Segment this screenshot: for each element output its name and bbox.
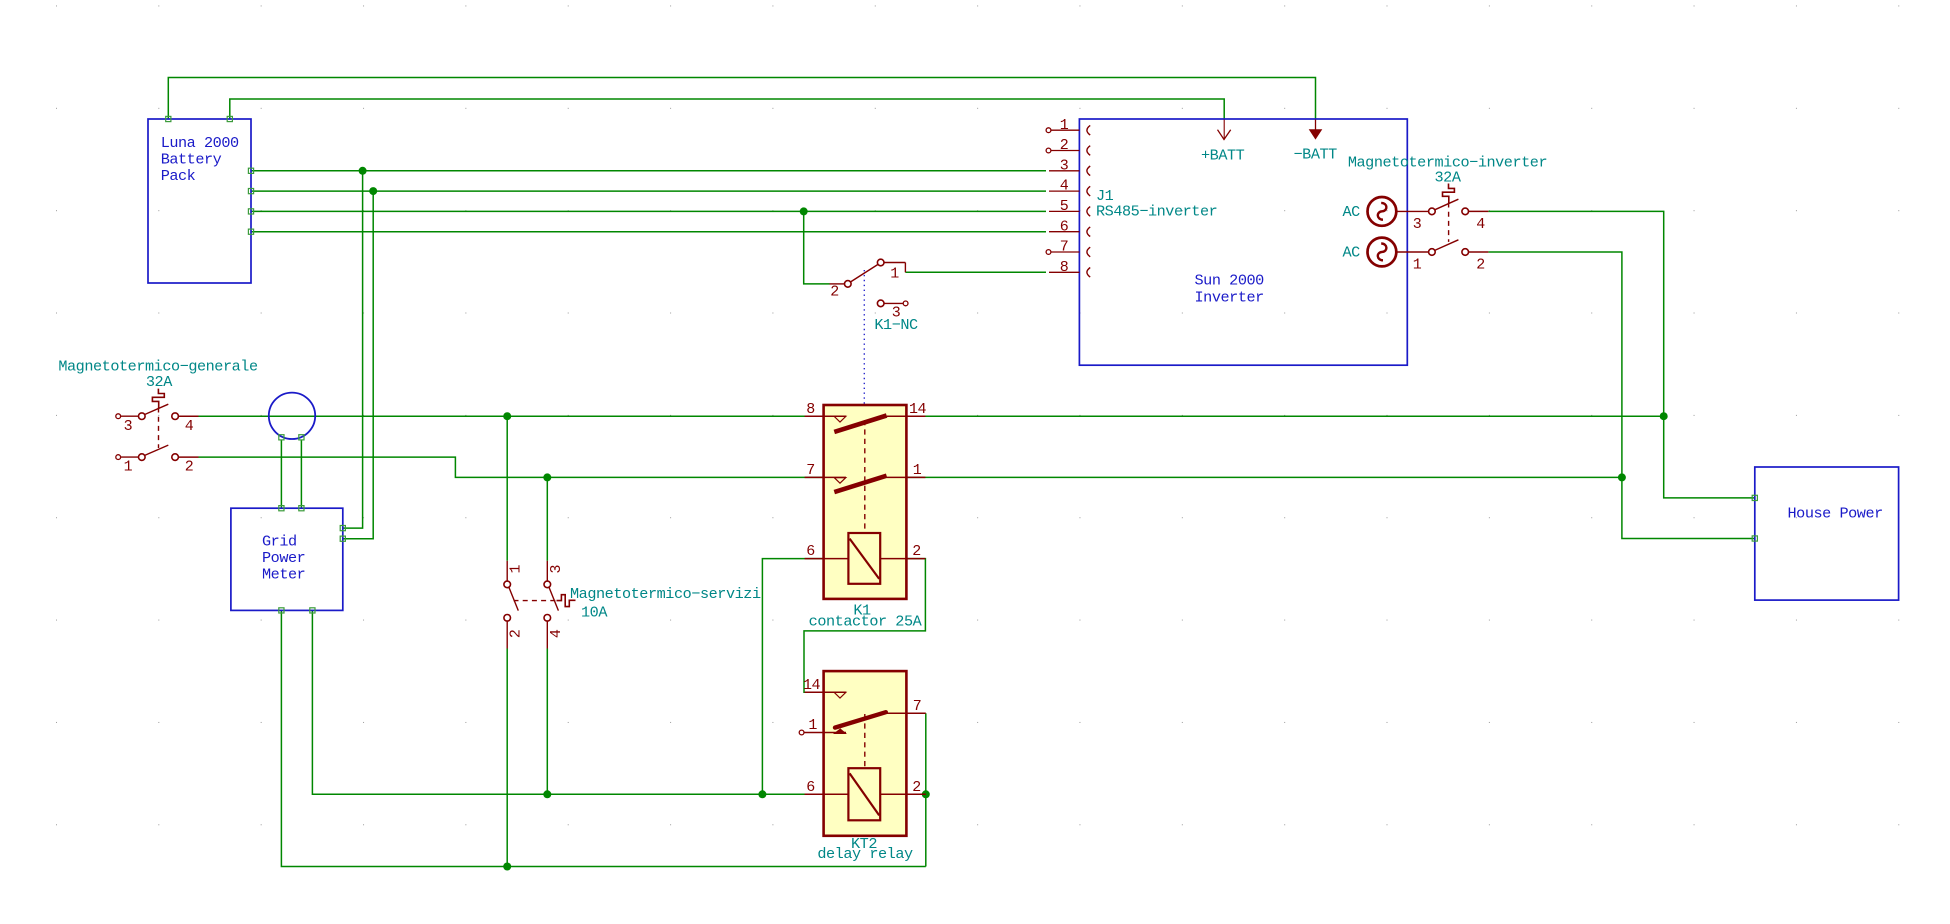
pin battery top2 [227,116,232,121]
current sensor ring (grid meter CT) [269,393,315,439]
svg-text:8: 8 [806,401,815,418]
svg-text:4: 4 [548,629,565,638]
node battery net2 junction [369,187,377,195]
contactor K1 pin 7 [805,462,846,479]
contactor K1 pin 6 [805,543,849,560]
relay KT2 pin 1 [799,717,846,735]
relay KT2 pin 7 [886,698,926,715]
svg-text:14: 14 [909,401,927,418]
pin J1-7 [1046,239,1090,257]
node bus L1 / house riser junction [1660,412,1668,420]
pin J1-5 [1049,198,1090,216]
wire meter bottom pin1 to bottom bus [281,610,925,866]
contactor K1 pin 2 [880,543,925,560]
relay KT2 actuator link (dashed) [864,714,866,768]
node bus L2 / house riser junction [1618,473,1626,481]
svg-text:4: 4 [1476,216,1485,233]
switch K1-NC blade [851,264,878,282]
svg-text:6: 6 [806,779,815,796]
pin house 1 [1752,495,1757,500]
relay KT2 body [824,671,907,836]
svg-text:7: 7 [1060,239,1069,256]
breaker Magnetotermico-inverter thermal element [1443,184,1455,203]
wire K1 pin2 to KT2 pin14 [804,559,925,693]
svg-text:4: 4 [1060,178,1069,195]
wire J1 pin5 net down to K1-NC pin2 [804,211,830,284]
svg-text:2: 2 [1476,256,1485,273]
pin meter right2 [340,536,345,541]
wire battery pin to J1 pin3 [251,170,1046,172]
contactor K1 contact A blade [834,416,886,432]
wire battery to +BATT top run [230,99,1224,120]
breaker Magnetotermico-generale pole linkage [158,408,160,449]
svg-text:Magnetotermico−servizi: Magnetotermico−servizi [570,585,761,603]
svg-text:1: 1 [1060,117,1069,134]
relay KT2 contact blade with arrow [833,712,886,734]
breaker Magnetotermico-generale pole B (pins 1-2) [116,445,199,476]
pin J1-1 [1046,117,1090,135]
svg-text:Luna 2000: Luna 2000 [161,134,239,152]
pin meter right1 [340,526,345,531]
relay KT2 pin 14 [803,677,846,694]
svg-text:AC: AC [1343,244,1361,262]
wire bus L1 K1 pin14 to house riser [906,415,1663,417]
svg-text:1: 1 [913,462,922,479]
mechanical link K1-NC to K1 (dotted) [863,270,865,404]
sheet Sun 2000 Inverter [1079,119,1407,365]
wire servizi pole2 down to KT2 coil net [546,649,548,795]
svg-text:2: 2 [912,779,921,796]
wire breaker inverter pin4 to house pin1 [1488,211,1754,498]
relay KT2 coil [848,768,880,820]
relay KT2 pin 2 [880,779,926,796]
breaker Magnetotermico-servizi pole A (pins 1-2) [504,561,525,649]
svg-text:4: 4 [185,418,194,435]
svg-text:1: 1 [890,266,899,283]
wire KT2 pin7 down to bottom bus [925,713,927,866]
pin J1-6 [1049,218,1090,236]
pin battery top1 [166,116,171,121]
node J1 pin5 / K1-NC junction [800,207,808,215]
contactor K1 contact A triangle [834,416,846,422]
svg-text:5: 5 [1060,198,1069,215]
relay KT2 contact triangle [834,692,846,698]
breaker Magnetotermico-servizi thermal element [557,595,576,607]
node battery net1 junction [359,167,367,175]
breaker Magnetotermico-inverter pole A (pins 3-4) [1413,199,1489,233]
switch K1-NC pin2 contact [830,281,852,301]
pin meter bottom2 [310,608,315,613]
svg-text:1: 1 [1413,256,1422,273]
svg-text:+BATT: +BATT [1201,147,1245,165]
breaker Magnetotermico-servizi pole B (pins 3-4) [544,561,565,649]
svg-text:8: 8 [1060,259,1069,276]
sheet House Power [1755,467,1899,600]
contactor K1 coil [848,533,880,584]
svg-text:AC: AC [1343,203,1361,221]
pin battery right4 [248,229,253,234]
contactor K1 pin 1 [887,462,926,479]
svg-text:contactor 25A: contactor 25A [809,613,923,631]
contactor K1 pin 8 [805,401,846,418]
pin J1-8 [1049,259,1090,277]
svg-text:2: 2 [185,459,194,476]
breaker Magnetotermico-generale pole A (pins 3-4) [116,404,199,435]
svg-text:delay relay: delay relay [817,845,913,863]
svg-text:7: 7 [806,462,815,479]
svg-text:7: 7 [913,698,922,715]
svg-text:2: 2 [1060,137,1069,154]
wire meter bottom pin2 to KT2 pin6 [312,610,823,794]
relay KT2 pin 6 [805,779,849,796]
contactor K1 body [824,405,907,599]
pin battery right3 [248,209,253,214]
node bottom bus / servizi pole1 junction [503,863,511,871]
pin J1-3 [1049,157,1090,175]
breaker Magnetotermico-inverter pole linkage [1448,203,1450,242]
wire CT pin2 to meter top pin2 [300,440,302,508]
node bus L1 / servizi pole1 junction [503,412,511,420]
pin inverter AC out N (1) [1368,238,1429,267]
pin CT 1 [279,435,284,440]
pin meter top1 [279,506,284,511]
svg-text:3: 3 [124,418,133,435]
svg-text:RS485−inverter: RS485−inverter [1096,203,1217,221]
power flag -BATT [1309,120,1323,140]
wire K1-NC pin1 to J1 pin8 [905,271,1046,273]
wire bus L1 tap down to servizi pole1 [506,416,508,561]
svg-text:Grid: Grid [262,533,297,551]
pin battery right2 [248,189,253,194]
svg-text:6: 6 [1060,218,1069,235]
wire meter right pin2 up to battery net [343,191,373,539]
wire meter right pin1 up to battery net [343,171,363,528]
wire K1 pin6 down to KT2 coil net [762,559,823,795]
pin battery right1 [248,168,253,173]
svg-text:3: 3 [548,564,565,573]
svg-text:14: 14 [803,677,821,694]
svg-text:Inverter: Inverter [1195,289,1264,307]
wire bus L2 tap down to servizi pole2 [546,477,548,560]
sheet Grid Power Meter [231,508,343,610]
wire bus L2 K1 pin1 to house riser [906,476,1622,478]
svg-text:2: 2 [830,284,839,301]
svg-text:1: 1 [808,717,817,734]
wire battery pin to J1 pin4 [251,190,1046,192]
pin inverter AC out L (3) [1368,197,1429,226]
svg-text:1: 1 [508,564,525,573]
node bus L2 / servizi pole2 junction [543,473,551,481]
svg-text:−BATT: −BATT [1294,146,1338,164]
svg-text:1: 1 [124,459,133,476]
svg-text:Pack: Pack [161,167,196,185]
node K1 coil net junction [758,790,766,798]
svg-text:Battery: Battery [161,151,222,169]
wire breaker inverter pin2 to house pin2 [1488,252,1754,539]
svg-text:K1−NC: K1−NC [874,316,918,334]
svg-text:10A: 10A [581,604,608,622]
pin J1-4 [1049,178,1090,196]
svg-text:3: 3 [1413,216,1422,233]
node KT2 pin2 / pin7 riser junction [922,790,930,798]
pin CT 2 [299,435,304,440]
svg-text:Power: Power [262,549,305,567]
contactor K1 contact B triangle [834,478,846,484]
contactor K1 contact B blade [834,476,886,492]
node servizi pole2 / coil net junction [543,790,551,798]
power flag +BATT [1218,120,1231,140]
wire bus L1 breaker generale pin4 to K1 pin8 [199,415,824,417]
pin house 2 [1752,536,1757,541]
breaker Magnetotermico-servizi pole linkage [514,600,557,602]
switch K1-NC pin1 contact [877,259,905,282]
switch K1-NC pin3 stub [877,300,908,321]
sheet Luna 2000 Battery Pack [148,119,251,283]
contactor K1 pin 14 [887,401,927,418]
contactor K1 actuator link (dashed) [864,420,866,533]
wire battery pin to J1 pin6 [251,231,1046,233]
svg-text:2: 2 [508,630,525,639]
svg-text:Sun 2000: Sun 2000 [1195,272,1265,290]
pin meter bottom1 [279,608,284,613]
breaker Magnetotermico-generale thermal element [152,389,164,408]
wire battery+ to -BATT top run [168,78,1315,120]
svg-text:3: 3 [1060,157,1069,174]
svg-text:House Power: House Power [1788,505,1883,523]
wire CT pin1 to meter top pin1 [280,440,282,508]
svg-text:Meter: Meter [262,566,305,584]
wire bus L2 breaker generale pin2 to K1 pin7 [199,457,824,477]
pin J1-2 [1046,137,1090,155]
wire battery pin to J1 pin5 [251,210,1046,212]
wire servizi pole1 down to bottom bus [506,649,508,867]
svg-text:6: 6 [806,543,815,560]
pin meter top2 [299,506,304,511]
svg-text:2: 2 [912,543,921,560]
breaker Magnetotermico-inverter pole B (pins 1-2) [1413,240,1489,273]
svg-text:32A: 32A [146,373,173,391]
